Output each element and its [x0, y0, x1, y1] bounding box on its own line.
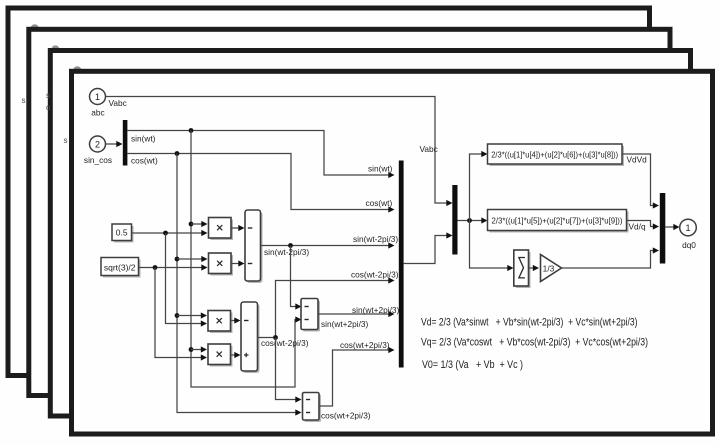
- frame window 1 (backmost): [8, 8, 650, 376]
- wire to Sum5: [470, 221, 514, 272]
- sum Sum1 (tall): [245, 210, 263, 283]
- fcn Fcn2 (Vq): [488, 210, 629, 233]
- label sin(wt+2pi/3) at mux: [352, 305, 400, 315]
- svg-text:0.5: 0.5: [116, 228, 128, 238]
- wire Fcn1 to Mux3: [622, 154, 659, 209]
- junction on cos(wt): [175, 151, 180, 156]
- label cos(wt) at mux: [366, 198, 393, 208]
- wire sin(wt) from demux to Mux1: [127, 131, 394, 179]
- junction after Mux2: [467, 218, 472, 223]
- svg-text:sin(wt): sin(wt): [368, 164, 393, 174]
- svg-text:dq0: dq0: [682, 240, 696, 250]
- svg-text:2: 2: [95, 140, 100, 150]
- wire Mux2 out to Fcn2: [458, 217, 488, 223]
- svg-text:2/3*((u[1]*u[5])+(u[2]*u[7])+(: 2/3*((u[1]*u[5])+(u[2]*u[7])+(u[3]*u[9])…: [492, 215, 623, 225]
- wire Fcn2 to Mux3: [627, 221, 660, 230]
- label sin_cos: [84, 155, 112, 165]
- frame window 3: [50, 45, 690, 416]
- wire Sum1 out sin(wt-2pi/3) to Mux1: [261, 242, 395, 248]
- label sin(wt-2pi/3) at Sum1: [264, 247, 309, 257]
- node Vabc label (near Mux2): [420, 144, 438, 154]
- fcn Fcn1 (Vd): [488, 144, 625, 166]
- annotation equation Vq: [421, 336, 648, 348]
- junction 0.5 drop: [163, 231, 168, 236]
- wire sqrt(3)/2 to product2: [139, 264, 208, 270]
- product X3: [208, 311, 233, 334]
- label VdVd: [627, 155, 648, 165]
- junction sqrt drop: [153, 265, 158, 270]
- gain 1/3 (triangle): [541, 255, 562, 282]
- sum Sum2 (tall): [241, 302, 260, 373]
- svg-text:V0= 1/3 (Va + Vb + Vc ): V0= 1/3 (Va + Vb + Vc ): [422, 359, 523, 371]
- product X2: [209, 253, 234, 276]
- svg-text:s: s: [46, 91, 50, 100]
- wire sin drop line: [191, 131, 302, 388]
- mux Mux3: [660, 193, 666, 264]
- inport 2 (sin_cos): [90, 136, 106, 152]
- svg-text:Vabc: Vabc: [420, 144, 438, 154]
- svg-text:sin(wt-2pi/3): sin(wt-2pi/3): [264, 247, 309, 257]
- junction sin to product4: [189, 346, 207, 352]
- svg-text:Vd/q: Vd/q: [629, 222, 646, 232]
- junction sin to product1: [189, 221, 208, 227]
- mux Mux1: [399, 161, 404, 368]
- wire X2 to Sum1: [231, 260, 245, 266]
- svg-text:s: s: [22, 96, 26, 105]
- wire Sum3 out sin(wt+2pi/3) to Mux1: [318, 311, 395, 317]
- mux Mux2: [452, 185, 457, 255]
- wire Gain to Mux3: [562, 247, 660, 268]
- svg-text:Vabc: Vabc: [109, 98, 127, 108]
- label sin(wt) at mux: [368, 164, 393, 174]
- annotation equation V0: [422, 359, 523, 371]
- label cos(wt+2pi/3) at mux: [340, 340, 390, 350]
- wire cos(wt-2pi/3) drop to Sum4: [276, 338, 302, 403]
- junction on sin(wt): [189, 128, 194, 133]
- wire X3 to Sum2: [231, 317, 241, 323]
- text fragment on window3 edge: [46, 91, 51, 112]
- label cos(wt+2pi/3) at Sum4: [321, 411, 371, 421]
- wire Sum4 out cos(wt+2pi/3) to Mux1: [319, 347, 395, 406]
- svg-text:Vd= 2/3 (Va*sinwt + Vb*sin(w: Vd= 2/3 (Va*sinwt + Vb*sin(wt-2pi/3) + V…: [421, 317, 638, 329]
- label sin(wt-2pi/3) at mux: [353, 234, 398, 244]
- frame window 4 (front): [72, 66, 713, 434]
- label cos(wt) at demux: [131, 156, 158, 166]
- MAIN DIAGRAM: [84, 89, 696, 423]
- constant sqrt(3)/2: [101, 258, 141, 278]
- label cos(wt-2pi/3) at mux: [351, 270, 399, 280]
- junction cos to product2: [175, 256, 208, 262]
- svg-text:sin_cos: sin_cos: [84, 155, 112, 165]
- svg-text:cos(wt-2pi/3): cos(wt-2pi/3): [351, 270, 399, 280]
- label sin(wt) at demux: [131, 134, 156, 144]
- svg-text:2/3*((u[1]*u[4])+(u[2]*u[6])+(: 2/3*((u[1]*u[4])+(u[2]*u[6])+(u[3]*u[8])…: [491, 149, 618, 159]
- product X4: [208, 344, 233, 367]
- wire Sum2 out cos(wt-2pi/3) riser to Mux1: [258, 277, 395, 337]
- svg-text:sqrt(3)/2: sqrt(3)/2: [104, 263, 136, 273]
- label sin(wt+2pi/3) at Sum3: [321, 319, 369, 329]
- wire Sum5 to Gain: [529, 265, 540, 271]
- label Vd/q: [629, 222, 646, 232]
- svg-text:1/3: 1/3: [543, 263, 555, 273]
- constant 0.5: [112, 224, 134, 243]
- sum Sum5 (sigma block): [514, 250, 531, 288]
- outport 1 (dq0): [680, 219, 697, 236]
- label dq0: [682, 240, 696, 250]
- sum Sum4: [303, 393, 322, 423]
- frame window 2: [29, 24, 670, 395]
- wire cos drop line: [177, 154, 302, 416]
- junction sin(wt-2pi/3): [288, 243, 293, 248]
- svg-text:cos(wt+2pi/3): cos(wt+2pi/3): [321, 411, 371, 421]
- demux D1: [123, 120, 128, 166]
- inport 1 (abc): [90, 89, 106, 105]
- svg-text:sin(wt-2pi/3): sin(wt-2pi/3): [353, 234, 398, 244]
- svg-text:cos(wt-2pi/3): cos(wt-2pi/3): [261, 338, 309, 348]
- wire to Fcn1: [470, 151, 488, 221]
- wire 0.5 drop to product3: [166, 233, 208, 327]
- svg-text:cos(wt+2pi/3): cos(wt+2pi/3): [340, 340, 390, 350]
- svg-text:VdVd: VdVd: [627, 155, 648, 165]
- text fragment on window4 edge: [64, 136, 68, 145]
- wire sin(wt-2pi/3) drop to Sum3: [291, 246, 302, 310]
- wire Mux3 to outport: [665, 224, 679, 230]
- sum Sum3: [301, 299, 320, 332]
- wire port2 to Demux: [106, 141, 123, 147]
- svg-text:1: 1: [685, 223, 690, 233]
- junction cos to product3: [175, 312, 207, 318]
- wire Mux1 out to Mux2: [404, 232, 453, 263]
- svg-text:s: s: [64, 136, 68, 145]
- annotation equation Vd: [421, 317, 638, 329]
- wire X4 to Sum2: [231, 352, 241, 358]
- svg-text:cos(wt): cos(wt): [366, 198, 393, 208]
- svg-text:1: 1: [95, 92, 100, 102]
- wire cos(wt) from demux to Mux1: [127, 154, 394, 213]
- junction cos(wt-2pi/3): [273, 335, 278, 340]
- label Vabc at port 1: [109, 98, 127, 108]
- svg-text:Vq= 2/3 (Va*coswt + Vb*cos(w: Vq= 2/3 (Va*coswt + Vb*cos(wt-2pi/3) + V…: [421, 336, 648, 348]
- svg-text:cos(wt): cos(wt): [131, 156, 158, 166]
- text fragment on window2 edge: [22, 96, 26, 105]
- product X1: [209, 218, 234, 241]
- svg-text:sin(wt+2pi/3): sin(wt+2pi/3): [352, 305, 400, 315]
- label cos(wt-2pi/3) at Sum2: [261, 338, 309, 348]
- wire X1 to Sum1: [231, 225, 245, 231]
- wire Vabc from port 1 to Mux2: [106, 97, 453, 207]
- svg-text:sin(wt+2pi/3): sin(wt+2pi/3): [321, 319, 369, 329]
- svg-text:sin(wt): sin(wt): [131, 134, 156, 144]
- svg-text:abc: abc: [91, 108, 104, 118]
- svg-text:o: o: [46, 103, 51, 112]
- label abc: [91, 108, 104, 118]
- wire sqrt drop to product4: [155, 268, 207, 361]
- wire 0.5 to product1: [132, 230, 208, 236]
